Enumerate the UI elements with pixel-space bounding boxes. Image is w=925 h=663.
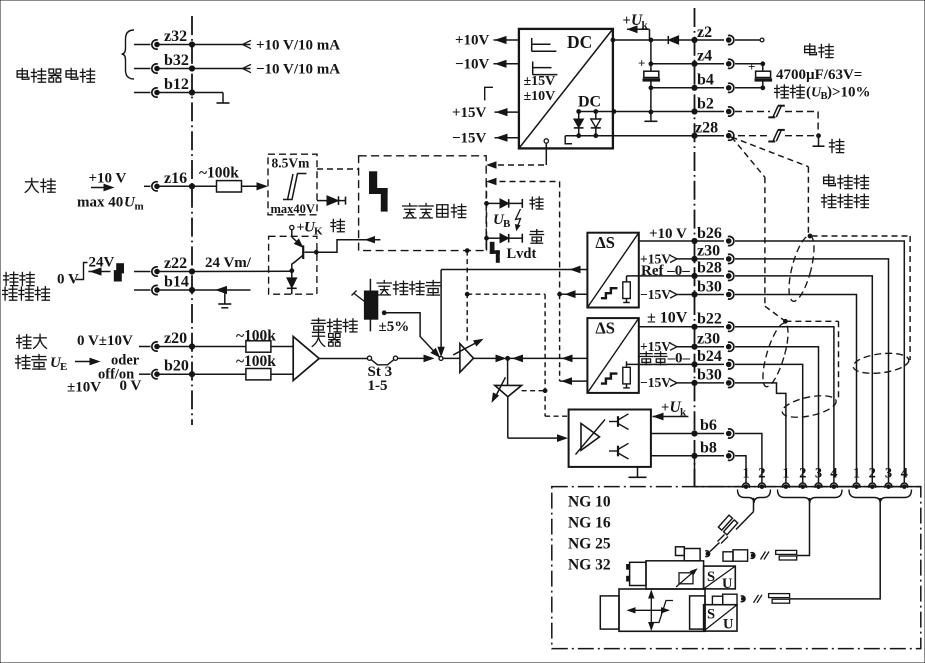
wire ±10V out (639, 310, 697, 330)
svg-text:z32: z32 (164, 28, 187, 45)
label 安全逻辑 (403, 204, 466, 218)
svg-text:1: 1 (853, 466, 860, 482)
terminal z30 (695, 243, 734, 264)
svg-text:4: 4 (901, 466, 908, 482)
Lvdt step glyph (490, 242, 499, 262)
svg-text:z28: z28 (695, 120, 718, 137)
terminal z2 (695, 24, 734, 45)
svg-text:Lvdt: Lvdt (507, 246, 537, 262)
svg-text:−15V: −15V (640, 375, 671, 390)
svg-text:0 V: 0 V (57, 272, 79, 288)
svg-text:S: S (707, 607, 715, 623)
wire b12 to bus (158, 90, 195, 95)
label ±15V ±10V (524, 74, 556, 104)
shield drain B (732, 137, 911, 360)
label 24Vm (205, 255, 252, 271)
node z2 ext (735, 38, 764, 42)
socket plug3-2 (869, 466, 876, 489)
socket plug2-4 (830, 466, 837, 489)
wire bus to R1 (192, 185, 217, 187)
wire z2 rail (611, 38, 668, 42)
svg-text:b24: b24 (697, 348, 722, 365)
svg-text:ΔS: ΔS (595, 319, 615, 338)
svg-text:24 Vm/: 24 Vm/ (205, 255, 252, 271)
dashed att ctrl (522, 294, 568, 416)
converter U7 dS2 (587, 318, 638, 393)
svg-text:U: U (722, 576, 733, 592)
shield drain A (732, 137, 839, 400)
input arrow (75, 358, 99, 364)
terminal b26 (695, 225, 734, 246)
cable shield 4 (852, 350, 910, 376)
svg-text:+15V: +15V (452, 105, 487, 121)
valve assembly box (552, 487, 921, 649)
zener D6 (591, 110, 601, 138)
wire zener rail bottom (565, 135, 614, 137)
svg-text:±5%: ±5% (379, 319, 410, 335)
dashed from DC to logic (488, 139, 549, 168)
svg-text:z4: z4 (697, 48, 712, 65)
diode D1 (327, 196, 339, 205)
wire dS1 feedback down (438, 270, 444, 356)
corner symbol (485, 87, 493, 100)
svg-text:B: B (503, 218, 511, 230)
brace plug group1 (738, 490, 771, 504)
prop symbol pilot (676, 569, 697, 587)
socket plug3-4 (901, 466, 908, 489)
terminal b2 (695, 95, 734, 116)
+UK supply (290, 220, 323, 238)
wire b8 to plug (735, 456, 746, 484)
wire z22 to bus (158, 269, 195, 274)
wire b14 arrow (192, 287, 251, 294)
cable chain3 (741, 498, 881, 603)
potentiometer zero (352, 279, 378, 332)
cable chain2 (723, 498, 810, 561)
half ground DC (565, 136, 572, 144)
svg-text:z30: z30 (697, 243, 720, 260)
terminal z22 (152, 255, 187, 276)
svg-text:b6: b6 (700, 417, 717, 434)
wire dot down (507, 358, 509, 385)
ground driver (629, 467, 647, 477)
svg-text:±10V: ±10V (67, 380, 101, 396)
ground b12 (192, 93, 230, 104)
wire limiter top dashed (317, 168, 359, 170)
step glyph safety (370, 172, 388, 211)
resistor R1 100k (217, 181, 242, 192)
wire R2 to amp (271, 346, 293, 348)
DC outputs left +10V (455, 33, 519, 49)
label 零位调整 (377, 281, 440, 296)
svg-text:S: S (707, 569, 715, 585)
diode D4 (287, 269, 297, 294)
svg-text:−10 V/10 mA: −10 V/10 mA (256, 62, 340, 78)
driver box U8 (569, 410, 651, 467)
svg-text:+: + (638, 56, 645, 71)
svg-text:b8: b8 (700, 439, 717, 456)
label 黄 (530, 230, 544, 244)
svg-text:b26: b26 (697, 225, 722, 242)
label ~100k z20 (236, 328, 276, 345)
svg-text:2: 2 (869, 466, 876, 482)
rail symbol 2 (533, 62, 558, 75)
svg-text:z20: z20 (164, 330, 187, 347)
label +Uk top (623, 12, 650, 40)
label +10V max40Um (77, 171, 144, 213)
label 红 (530, 197, 543, 209)
wire -15V in dS1 (640, 287, 697, 302)
wire right card-edge bus (694, 8, 696, 487)
socket plug2-1 (782, 466, 789, 489)
wire b14 to bus (158, 287, 195, 292)
brace potentiometer rows (122, 30, 135, 79)
svg-text:z22: z22 (164, 255, 187, 272)
terminal b24 (695, 348, 734, 369)
svg-text:~100k: ~100k (199, 165, 239, 182)
wire dot to dS2 (508, 355, 588, 361)
wire amp to St3 (319, 358, 367, 360)
svg-text:z16: z16 (164, 170, 187, 187)
terminal z30 (695, 331, 734, 352)
wire b6 to plug (735, 434, 762, 484)
terminal z4 (695, 48, 734, 69)
wire zener rail top (579, 110, 616, 114)
wire bus to R2 (192, 346, 246, 348)
dashed LED box top (488, 179, 560, 185)
svg-text:K: K (314, 226, 323, 238)
wire z22 stub (134, 271, 151, 273)
socket plug1-2 (758, 466, 765, 489)
wire +10V/10mA (192, 38, 340, 54)
svg-text:+10 V: +10 V (649, 226, 687, 242)
wire b32 stub (134, 68, 151, 70)
wire z16 to bus (158, 184, 195, 189)
svg-text:~100k: ~100k (236, 353, 276, 370)
label ~100k z16 (199, 165, 239, 182)
terminal b28 (695, 260, 734, 281)
wire bus to R3 (192, 373, 246, 375)
svg-text:1-5: 1-5 (368, 378, 388, 394)
svg-text:+15V: +15V (640, 339, 671, 354)
label 输入信号UE (16, 334, 68, 373)
cap C1 chain (638, 40, 697, 121)
label 电位器电源 (17, 68, 94, 82)
wire gain to dot (474, 355, 510, 361)
safety logic box (359, 156, 487, 251)
svg-text:DC: DC (578, 94, 601, 111)
terminal b32 (152, 52, 189, 73)
label 0V±10V oder (67, 333, 141, 396)
terminal z20 (152, 330, 187, 351)
wire z32 to bus (158, 42, 195, 47)
svg-text:max40V: max40V (271, 202, 315, 216)
diode D7 (668, 36, 697, 44)
brace plug group2 (778, 490, 843, 504)
svg-text:NG 32: NG 32 (568, 557, 611, 574)
svg-text:b2: b2 (697, 95, 714, 112)
cable chain1 (710, 498, 754, 552)
wire -10V/10mA (192, 62, 340, 78)
arrow out z22 (88, 268, 110, 275)
wire b6 row (651, 417, 734, 438)
wire z22 to Q1 (192, 270, 292, 272)
DC outputs left +15V (452, 105, 519, 121)
svg-text:U: U (723, 617, 734, 633)
wire z28 row (614, 133, 697, 138)
valve arrows (628, 591, 673, 630)
svg-text:+: + (623, 13, 631, 29)
wire R1 to limiter (241, 183, 266, 190)
wire dS2 lower out (560, 294, 588, 384)
svg-text:4700µF/63V=: 4700µF/63V= (776, 67, 862, 83)
wire b30b to plug (735, 383, 786, 483)
hysteresis symbol (283, 174, 307, 200)
wire wiper to node (382, 311, 439, 357)
svg-text:b4: b4 (697, 72, 714, 89)
label ~100k b20 (236, 353, 276, 370)
connector pilot (676, 547, 701, 561)
sensor S/U 2 (704, 605, 737, 633)
wire b20 stub (139, 373, 151, 375)
cable shield 2 (758, 321, 793, 389)
svg-text:max 40: max 40 (77, 195, 123, 211)
socket plug3-1 (853, 466, 860, 489)
svg-text:ΔS: ΔS (595, 233, 615, 252)
DC/DC converter U5 (519, 29, 613, 148)
LED yellow D3 (485, 234, 523, 243)
resistor R3 100k (246, 369, 271, 380)
DC outputs left -10V (455, 57, 519, 73)
wire z16 stub (144, 185, 151, 187)
svg-text:E: E (60, 361, 67, 373)
label Lvdt (507, 246, 537, 262)
socket plug3-3 (885, 466, 892, 489)
svg-text:b28: b28 (697, 260, 722, 277)
terminal z16 (152, 170, 187, 191)
svg-text:b14: b14 (164, 274, 189, 291)
amp U3 gain (443, 340, 482, 373)
svg-text:+10 V/10 mA: +10 V/10 mA (256, 38, 340, 54)
svg-text:0 V±10V: 0 V±10V (77, 333, 133, 349)
wire D1 to logic (339, 197, 346, 205)
svg-text:1: 1 (742, 466, 749, 482)
wire b12 stub (134, 92, 151, 94)
svg-text:b30: b30 (697, 278, 722, 295)
svg-text:2: 2 (758, 466, 765, 482)
label 故障 控制地 (3, 272, 50, 300)
terminal b30 (695, 367, 734, 388)
brace plug group3 (849, 490, 912, 504)
socket plug2-2 (799, 466, 806, 489)
DC outputs left -15V (452, 130, 519, 146)
converter U6 dS1 (587, 233, 638, 308)
transistor Q3 (609, 443, 629, 459)
switch St3 (367, 356, 397, 394)
svg-text:+10 V: +10 V (89, 171, 127, 187)
cable shield 3 (780, 392, 838, 422)
wire bus to socket rail (695, 456, 921, 487)
label 0V 24V (57, 255, 115, 288)
wire z20 to bus (158, 344, 195, 349)
wire -15V in dS2 (640, 375, 697, 390)
ground earth 地 (813, 136, 844, 153)
svg-text:3: 3 (815, 466, 822, 482)
svg-text:+10V: +10V (455, 33, 490, 49)
rail symbol 1 (532, 38, 557, 52)
socket valve1 (705, 551, 709, 557)
LED red D2 (485, 199, 523, 208)
wire Ref (627, 263, 698, 279)
svg-text:b30: b30 (697, 367, 722, 384)
driver amp symbol (576, 420, 606, 455)
wire z32 stub (134, 44, 151, 46)
wire R3 to amp (271, 373, 293, 375)
wire b20 to bus (158, 372, 195, 377)
socket plug2-3 (815, 466, 822, 489)
svg-text:4: 4 (830, 466, 837, 482)
wire b28 to plug (735, 276, 872, 483)
svg-text:±15V: ±15V (524, 74, 556, 89)
svg-text:m: m (135, 201, 144, 213)
wire z30 to plug (735, 259, 889, 483)
wire +15V in dS2 (640, 339, 697, 354)
label UB flash (493, 209, 521, 230)
svg-text:DC: DC (567, 32, 592, 52)
svg-text:−15V: −15V (452, 130, 487, 146)
ground b14 (218, 290, 231, 308)
zener D5 (574, 110, 584, 138)
wire att to driver (508, 397, 567, 442)
svg-text:3: 3 (885, 466, 892, 482)
label +Uk driver (653, 399, 689, 420)
wire b14 stub (134, 289, 151, 291)
connector main (712, 594, 737, 605)
svg-text:2: 2 (799, 466, 806, 482)
wire b22 to plug (735, 327, 834, 484)
terminal b30 (695, 278, 734, 299)
wire dS1 lower out (560, 291, 588, 297)
LED box left edge (486, 182, 488, 251)
step waveform (76, 263, 88, 280)
terminal b14 (152, 274, 189, 295)
terminal b4 (695, 72, 734, 93)
svg-text:−15V: −15V (640, 287, 671, 302)
label 电源 4700uF (775, 44, 871, 102)
socket plug1-1 (742, 466, 749, 489)
cable shield 1 (784, 233, 819, 303)
limiter box 8.5Vm (268, 154, 317, 216)
svg-text:±10V: ±10V (524, 89, 556, 104)
wire b32 to bus (158, 66, 195, 71)
op-amp U2 diff (293, 337, 319, 381)
svg-text:1: 1 (782, 466, 789, 482)
svg-text:b22: b22 (697, 311, 722, 328)
terminal z32 (152, 28, 187, 49)
pilot solenoid body (627, 561, 704, 589)
svg-text:b20: b20 (164, 358, 189, 375)
svg-text:8.5Vm: 8.5Vm (272, 156, 311, 171)
amp U4 feedback att (492, 377, 521, 401)
wire z20 stub (139, 346, 151, 348)
wire Q1 base to logic (316, 237, 380, 253)
wire b24 to plug (735, 364, 803, 483)
wire +10V out (639, 226, 697, 244)
terminal b22 (695, 311, 734, 332)
resistor R2 100k (246, 341, 271, 352)
label 允许 (25, 178, 55, 192)
wire b30 to plug (735, 295, 857, 484)
svg-text:z2: z2 (697, 24, 712, 41)
wire z30b to plug (735, 347, 819, 484)
svg-text:z30: z30 (697, 331, 720, 348)
svg-text:+: + (748, 59, 755, 74)
link z28 to earth (738, 130, 820, 142)
svg-text:−10V: −10V (455, 57, 490, 73)
svg-text:NG 25: NG 25 (568, 536, 611, 553)
node summing (439, 356, 443, 360)
label 电源地 控制地 (822, 175, 869, 208)
svg-text:NG 10: NG 10 (568, 494, 611, 511)
svg-text:± 10V: ± 10V (647, 310, 688, 327)
terminal b12 (152, 76, 189, 97)
transistor box (269, 236, 317, 294)
transistor Q2 (609, 414, 629, 430)
wire St3 to node (398, 355, 433, 361)
LED box right edge (558, 182, 562, 297)
sensor S/U 1 (704, 566, 736, 592)
wire b2 row (614, 109, 697, 114)
link b2 (735, 106, 818, 133)
terminal b20 (152, 358, 189, 379)
wire 参考 ref2 (627, 351, 698, 368)
transistor Q1 (292, 230, 318, 271)
svg-text:NG 16: NG 16 (568, 515, 611, 532)
dashed safety ctrl vert (465, 249, 545, 342)
terminal z28 (695, 120, 734, 141)
label 绿 (331, 219, 344, 232)
cap C2 external (735, 59, 772, 90)
step glyph 24V (114, 264, 123, 281)
wire dS1 upper out (441, 266, 587, 272)
svg-text:)>10%: )>10% (827, 85, 871, 101)
svg-text:0 V: 0 V (120, 378, 142, 394)
svg-text:b12: b12 (164, 76, 189, 93)
label 差动放大器 (311, 318, 357, 346)
wire +15V in dS1 (640, 251, 697, 266)
wire limiter out (317, 200, 327, 202)
label ±5% (379, 319, 410, 335)
svg-text:b32: b32 (164, 52, 189, 69)
wire b8 row (651, 439, 734, 460)
main valve body (600, 589, 705, 631)
label NG sizes (568, 494, 611, 574)
wire b26 to plug (735, 241, 904, 483)
wire left card-edge bus (191, 16, 193, 425)
